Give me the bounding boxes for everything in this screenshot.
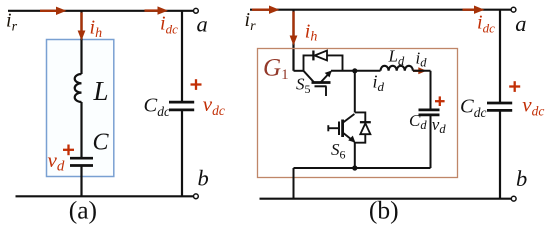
wire: (b) dc-link branch upper [499,10,501,103]
svg-text:(b): (b) [369,196,399,225]
current arrow i_dc (a) [145,6,169,14]
wire: (a) bottom rail [16,195,194,197]
wire: (b) top rail [250,9,511,11]
wire: (a) dc-link branch upper [181,11,183,102]
capacitor C_dc (a) [169,102,194,110]
transistor S5 (IGBT) [304,71,332,97]
label + polarity of v_d (a) [63,145,74,156]
label + polarity of v_d (b) [435,96,445,106]
wire: L_d lead from junction [355,70,381,72]
node b terminal (a) [194,194,199,199]
capacitor C [70,158,93,165]
wire: internal rail drop to bottom rail [293,168,295,199]
current arrow i_d (small, after L_d) [413,67,427,74]
current arrow i_dc (b) [463,6,485,14]
label + polarity of v_dc (a) [191,79,202,90]
svg-text:a: a [197,12,208,37]
wire: S6 emitter vertical to internal rail [354,142,356,168]
wire: internal bottom rail of G1 [294,167,431,169]
wire: (a) top rail [8,10,193,12]
boundary box G1 [258,49,458,178]
wire: S5 collector lead [294,70,304,72]
wire: (b) branch to G1 vertical [292,10,294,71]
wire: (b) dc-link branch lower [499,111,501,199]
svg-text:L: L [93,76,109,106]
diode D5 loop wiring [304,55,343,70]
current arrow i_r (b) [252,6,280,14]
svg-text:a: a [515,11,526,36]
transistor S6 (IGBT) [328,114,355,143]
wire: C_d branch lower [430,115,432,168]
diode D6 [360,122,371,134]
capacitor C_dc (b) [487,103,512,110]
inductor L [75,74,82,102]
junction: S5 emitter / S6 collector / L_d node [352,68,357,73]
junction: internal bottom rail [352,165,357,170]
current arrow i_h (b) [290,12,298,46]
wire: (a) dc-link branch lower [181,110,183,196]
wire: (b) bottom rail [260,198,512,200]
wire: (a) filter branch between L and C [80,102,82,158]
wire: (a) filter branch lower [80,166,82,197]
svg-text:b: b [198,166,209,191]
wire: L_d to C_d corner [413,70,431,72]
svg-text:(a): (a) [69,196,97,225]
current arrow i_h (a) [78,13,86,41]
diode D6 loop wiring [355,112,366,142]
node b terminal (b) [511,196,516,201]
node a terminal (b) [511,7,516,12]
capacitor C_d [419,110,440,115]
current arrow i_r (a) [40,7,67,15]
filter boundary box (a) [47,40,114,177]
inductor L_d [381,66,413,71]
label + polarity of v_dc (b) [509,81,520,92]
svg-text:b: b [516,166,527,191]
wire: S5 emitter rail to junction [331,70,355,72]
diode D5 [313,51,327,61]
node a terminal (a) [194,8,199,13]
wire: S6 collector vertical [354,71,356,113]
svg-text:C: C [93,130,110,156]
wire: C_d branch upper [430,71,432,110]
wire: (a) filter branch vertical upper [80,11,82,74]
